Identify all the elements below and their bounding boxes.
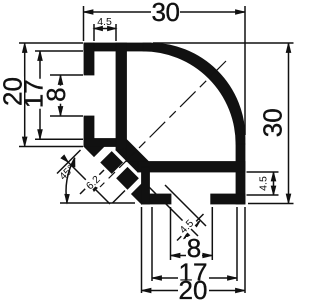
svg-text:4.5: 4.5 [258, 176, 270, 191]
svg-text:8: 8 [41, 87, 71, 101]
svg-text:4.5: 4.5 [97, 16, 112, 28]
svg-text:30: 30 [152, 0, 180, 27]
svg-text:30: 30 [258, 108, 288, 137]
svg-text:20: 20 [179, 275, 208, 300]
